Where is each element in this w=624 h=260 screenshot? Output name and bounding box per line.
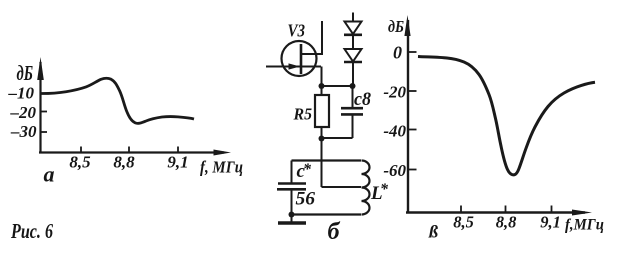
graph a: y tick -10	[40, 93, 47, 95]
wire C8 down	[352, 114, 354, 138]
svg-text:8,8: 8,8	[496, 213, 517, 232]
transistor V3 gate wire	[266, 66, 321, 68]
wire junction to diode column	[322, 85, 353, 87]
caption Ris.6	[10, 219, 53, 243]
graph a: x label f, MHz	[200, 158, 243, 177]
wire node to R5	[321, 86, 323, 95]
graph v: y-axis	[407, 20, 409, 213]
capacitor C*	[277, 184, 306, 190]
graph a: axis label dB	[17, 61, 34, 85]
resistor R5 label	[293, 105, 313, 124]
graph v: x tick 8,5	[460, 206, 462, 213]
inductor L* label	[370, 181, 389, 204]
svg-text:f, МГц: f, МГц	[200, 158, 243, 177]
transistor V3 drain wire	[301, 53, 322, 55]
value label 56	[296, 189, 316, 210]
graph a: y label -30	[10, 122, 37, 141]
graph v: y label 0	[393, 43, 402, 63]
graph v: y label -40	[383, 122, 406, 141]
graph v: y-axis arrow	[404, 15, 410, 36]
wire top to C*	[291, 161, 293, 183]
graph v: x label 8,8	[496, 213, 517, 232]
graph a: x tick 8,8	[128, 147, 130, 153]
graph a: y tick -30	[40, 131, 47, 133]
circuit sublabel b	[328, 219, 341, 245]
graph a: sublabel a	[44, 162, 55, 187]
transistor V3 channel bar	[300, 44, 303, 74]
svg-text:б: б	[328, 219, 341, 245]
wire diode to node	[352, 62, 354, 86]
diode VD1	[344, 22, 362, 35]
svg-text:дБ: дБ	[388, 17, 404, 36]
graph v: axis label dB	[388, 17, 404, 36]
wire down to coil tap	[322, 139, 362, 188]
svg-text:V3: V3	[288, 21, 306, 41]
capacitor C8 label	[354, 89, 371, 110]
graph a: x-axis arrow	[214, 150, 232, 156]
graph v: x label 9,1	[540, 213, 561, 232]
svg-text:дБ: дБ	[17, 61, 34, 85]
svg-text:–30: –30	[10, 122, 37, 141]
svg-text:*: *	[380, 181, 389, 198]
graph a: x-axis	[39, 151, 224, 153]
transistor V3 label	[288, 21, 306, 41]
diode VD2	[344, 49, 362, 62]
svg-text:56: 56	[296, 189, 316, 210]
graph a: response curve	[40, 78, 194, 123]
wire node to C8	[352, 86, 354, 108]
wire R5 to bottom node	[321, 127, 323, 139]
graph v: y label -20	[383, 83, 406, 102]
graph v: y tick -40	[408, 129, 417, 131]
graph v: x tick 9,1	[551, 206, 553, 213]
wire between diodes	[352, 35, 354, 49]
capacitor C* label	[297, 161, 313, 182]
svg-text:а: а	[44, 162, 55, 187]
graph a: x tick 9,1	[177, 147, 179, 153]
svg-text:-40: -40	[383, 122, 406, 141]
wire tank bottom	[292, 213, 362, 215]
graph a: x label 9,1	[167, 153, 188, 172]
wire source down	[321, 67, 323, 88]
svg-text:c8: c8	[354, 89, 371, 110]
svg-text:9,1: 9,1	[540, 213, 561, 232]
svg-text:9,1: 9,1	[167, 153, 188, 172]
graph v: y tick -20	[408, 90, 417, 92]
graph v: y tick 0	[408, 51, 417, 53]
node below R5	[319, 136, 325, 142]
graph a: x label 8,5	[69, 153, 91, 172]
graph v: x-axis arrow	[572, 210, 592, 216]
wire diode stub top	[352, 13, 354, 23]
resistor R5	[315, 95, 329, 127]
svg-text:8,5: 8,5	[69, 153, 91, 172]
node at diode column	[350, 83, 356, 89]
graph a: y-axis	[39, 62, 41, 153]
svg-text:Рис. 6: Рис. 6	[10, 219, 53, 243]
svg-text:8,8: 8,8	[113, 153, 135, 172]
wire tank top	[292, 159, 362, 161]
svg-text:ß: ß	[428, 222, 438, 242]
graph v: x label f,MHz	[565, 217, 604, 234]
node at ground junction	[289, 212, 295, 218]
wire C* to ground node	[291, 189, 293, 214]
graph v: y label -60	[383, 161, 406, 180]
wire collector up	[321, 21, 323, 55]
inductor L*	[362, 161, 370, 215]
svg-text:-60: -60	[383, 161, 406, 180]
graph v: y tick -60	[408, 169, 417, 171]
graph a: x tick 8,5	[80, 147, 82, 153]
svg-text:–20: –20	[10, 103, 37, 122]
node at source junction	[319, 83, 325, 89]
svg-text:8,5: 8,5	[453, 213, 474, 232]
graph v: x label 8,5	[453, 213, 474, 232]
graph v: sublabel v	[428, 222, 438, 242]
wire C8 to bottom node	[322, 137, 353, 139]
svg-text:*: *	[303, 161, 312, 178]
graph a: y label -10	[8, 84, 35, 103]
graph a: y-axis arrow	[37, 57, 44, 80]
graph v: x tick 8,8	[505, 206, 507, 213]
ground	[278, 215, 306, 224]
svg-text:–10: –10	[8, 84, 35, 103]
svg-text:-20: -20	[383, 83, 406, 102]
graph v: x-axis	[406, 211, 585, 213]
graph a: x label 8,8	[113, 153, 135, 172]
capacitor C8	[341, 108, 363, 114]
transistor V3 gate arrow	[289, 63, 301, 69]
transistor V3 circle	[282, 41, 317, 76]
svg-text:0: 0	[393, 43, 402, 63]
svg-text:R5: R5	[293, 105, 313, 124]
graph a: y label -20	[10, 103, 37, 122]
graph a: y tick -20	[40, 111, 47, 113]
graph v: notch response curve	[418, 57, 595, 175]
svg-text:f,МГц: f,МГц	[565, 217, 604, 234]
